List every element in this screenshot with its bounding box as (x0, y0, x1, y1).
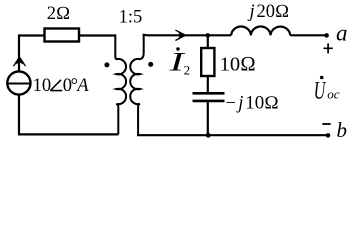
terminal b node (326, 133, 331, 138)
arrowhead of current source on lead (13, 57, 25, 67)
inductor j20 (231, 27, 290, 36)
svg-text:j: j (236, 93, 243, 113)
plus sign (323, 43, 332, 53)
minus sign (322, 123, 330, 125)
label Uoc with dot (314, 76, 340, 105)
svg-text:10: 10 (33, 76, 52, 96)
svg-text:−: − (226, 93, 236, 113)
svg-text:10Ω: 10Ω (245, 94, 278, 114)
svg-text:2Ω: 2Ω (47, 4, 70, 24)
terminal a node (324, 33, 329, 38)
svg-text:1:5: 1:5 (119, 8, 143, 28)
wire: primary top from left corner to resistor (19, 34, 45, 36)
svg-text:A: A (75, 76, 89, 96)
capacitor -j10 top plate (193, 92, 225, 95)
wire: inductor to terminal a (290, 34, 326, 36)
transformer primary winding L1 (115, 34, 126, 134)
svg-text:U: U (314, 78, 327, 105)
svg-text:2: 2 (184, 63, 191, 78)
label j20ohm (248, 2, 290, 22)
capacitor -j10 bottom plate (193, 100, 225, 103)
wire: left vertical lower (source bottom lead) (18, 95, 20, 135)
label 10 angle 0 A (33, 76, 90, 96)
label -j10ohm (226, 93, 279, 113)
svg-text:b: b (337, 118, 348, 142)
polarity dot primary (104, 62, 109, 67)
wire: secondary top (143, 34, 232, 37)
transformer secondary winding L2 (130, 35, 143, 135)
svg-text:a: a (336, 21, 348, 46)
wire: capacitor to bottom (207, 101, 209, 135)
wire: resistor to transformer primary corner (79, 34, 115, 36)
label I2 with dot (168, 47, 190, 77)
junction node top (206, 33, 211, 38)
svg-text:oc: oc (327, 87, 340, 102)
current source bar (7, 83, 31, 85)
wire: resistor to capacitor (207, 76, 209, 92)
polarity dot secondary (148, 62, 153, 67)
junction node bottom (206, 133, 211, 138)
resistor 2ohm (45, 29, 80, 42)
wire: left vertical upper (source top lead) (18, 34, 20, 70)
current I2 arrow on wire (175, 30, 186, 40)
wire: primary bottom (18, 133, 119, 135)
svg-text:10Ω: 10Ω (220, 53, 256, 75)
wire: secondary bottom to terminal b (137, 134, 328, 136)
current source circle (7, 71, 30, 94)
resistor 10ohm (201, 48, 214, 76)
wire: junction to resistor 10ohm (207, 35, 209, 48)
svg-text:j: j (248, 2, 255, 22)
svg-text:20Ω: 20Ω (257, 2, 290, 22)
